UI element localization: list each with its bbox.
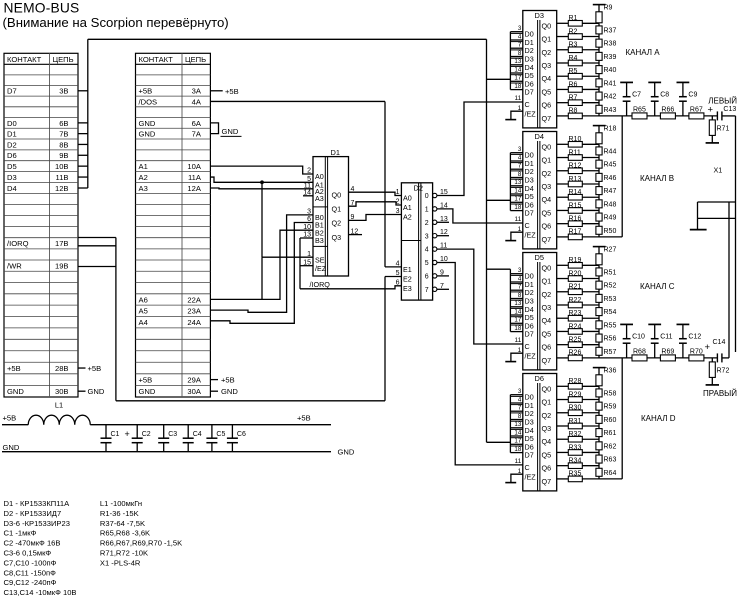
svg-text:1: 1 — [425, 207, 429, 214]
svg-text:C5: C5 — [216, 431, 225, 438]
svg-text:3: 3 — [425, 233, 429, 240]
svg-text:7: 7 — [518, 163, 522, 170]
svg-text:GND: GND — [7, 387, 24, 396]
svg-text:1: 1 — [518, 226, 522, 233]
svg-text:X1 -PLS-4R: X1 -PLS-4R — [100, 558, 141, 567]
svg-text:/EZ: /EZ — [525, 472, 537, 481]
svg-text:Q6: Q6 — [542, 101, 552, 110]
svg-text:18: 18 — [514, 204, 521, 211]
svg-text:12A: 12A — [187, 184, 201, 193]
svg-text:R54: R54 — [604, 309, 617, 316]
svg-text:3: 3 — [396, 208, 400, 215]
svg-text:Q2: Q2 — [542, 290, 552, 299]
svg-text:4: 4 — [518, 396, 522, 403]
svg-text:R1-36 -15K: R1-36 -15K — [100, 509, 139, 518]
svg-text:15: 15 — [303, 259, 311, 266]
svg-text:1: 1 — [307, 251, 311, 258]
svg-text:R20: R20 — [569, 270, 582, 277]
svg-text:C14: C14 — [713, 339, 726, 346]
svg-text:+: + — [708, 105, 714, 116]
svg-text:R26: R26 — [569, 350, 582, 357]
svg-text:E1: E1 — [403, 265, 412, 274]
svg-text:7: 7 — [425, 287, 429, 294]
svg-text:C: C — [525, 100, 530, 109]
svg-text:D3-6 -КР1533ИР23: D3-6 -КР1533ИР23 — [4, 519, 70, 528]
svg-text:ЛЕВЫЙ: ЛЕВЫЙ — [708, 96, 737, 105]
svg-text:R32: R32 — [569, 431, 582, 438]
svg-text:14: 14 — [514, 429, 521, 436]
svg-text:Q3: Q3 — [542, 424, 552, 433]
svg-text:КАНАЛ С: КАНАЛ С — [640, 282, 675, 291]
svg-text:NEMO-BUS: NEMO-BUS — [4, 1, 80, 16]
svg-text:8: 8 — [518, 171, 522, 178]
svg-text:Q4: Q4 — [542, 316, 552, 325]
svg-text:28B: 28B — [55, 364, 69, 373]
svg-text:Q1: Q1 — [332, 204, 342, 213]
svg-text:R47: R47 — [604, 188, 617, 195]
svg-text:D5: D5 — [7, 162, 17, 171]
svg-text:19B: 19B — [55, 262, 69, 271]
svg-text:C13,C14 -10мкФ 10В: C13,C14 -10мкФ 10В — [4, 588, 77, 597]
svg-text:ЦЕПЬ: ЦЕПЬ — [185, 55, 206, 64]
svg-text:C9: C9 — [688, 92, 697, 99]
svg-text:8: 8 — [518, 413, 522, 420]
svg-text:R59: R59 — [604, 404, 617, 411]
svg-text:4: 4 — [351, 186, 355, 193]
svg-text:17B: 17B — [55, 239, 69, 248]
svg-text:КАНАЛ А: КАНАЛ А — [626, 48, 661, 57]
svg-text:8: 8 — [518, 292, 522, 299]
svg-text:Q5: Q5 — [542, 87, 552, 96]
svg-text:24A: 24A — [187, 318, 201, 327]
svg-text:R66,R67,R69,R70 -1,5K: R66,R67,R69,R70 -1,5K — [100, 539, 182, 548]
svg-text:A3: A3 — [315, 194, 324, 203]
svg-text:R69: R69 — [661, 348, 674, 355]
svg-text:R53: R53 — [604, 296, 617, 303]
svg-text:Q0: Q0 — [542, 384, 552, 393]
svg-text:4: 4 — [396, 261, 400, 268]
svg-text:/DOS: /DOS — [139, 97, 158, 106]
svg-text:R58: R58 — [604, 391, 617, 398]
svg-text:X1: X1 — [714, 166, 723, 175]
svg-text:11A: 11A — [188, 173, 202, 182]
svg-text:+5B: +5B — [7, 364, 21, 373]
svg-text:D0: D0 — [7, 119, 17, 128]
svg-text:/EZ: /EZ — [525, 230, 537, 239]
svg-text:18: 18 — [514, 83, 521, 90]
svg-text:R40: R40 — [604, 67, 617, 74]
svg-text:R44: R44 — [604, 149, 617, 156]
svg-text:2: 2 — [425, 220, 429, 227]
svg-text:13: 13 — [440, 216, 448, 223]
svg-text:R37: R37 — [604, 28, 617, 35]
svg-text:22A: 22A — [187, 295, 201, 304]
svg-text:10A: 10A — [187, 162, 201, 171]
svg-text:Q7: Q7 — [542, 477, 552, 486]
svg-text:D7: D7 — [525, 209, 534, 218]
svg-text:C1 -1мкФ: C1 -1мкФ — [4, 529, 37, 538]
svg-text:C2 -470мкФ 16В: C2 -470мкФ 16В — [4, 539, 61, 548]
svg-text:D7: D7 — [7, 87, 17, 96]
svg-text:18: 18 — [514, 325, 521, 332]
svg-text:Q2: Q2 — [542, 169, 552, 178]
svg-text:R10: R10 — [569, 136, 582, 143]
svg-text:+5B: +5B — [3, 413, 17, 422]
svg-text:C3: C3 — [168, 431, 177, 438]
svg-text:Q0: Q0 — [542, 142, 552, 151]
svg-text:+5B: +5B — [225, 87, 239, 96]
svg-text:/EZ: /EZ — [525, 109, 537, 118]
svg-text:1: 1 — [518, 105, 522, 112]
svg-text:C7: C7 — [632, 92, 641, 99]
svg-text:11: 11 — [440, 243, 447, 250]
svg-text:18: 18 — [514, 446, 521, 453]
svg-text:11: 11 — [514, 216, 521, 223]
svg-text:Q1: Q1 — [542, 35, 552, 44]
svg-text:R8: R8 — [569, 108, 578, 115]
svg-text:R71: R71 — [717, 125, 730, 132]
svg-text:17: 17 — [514, 317, 521, 324]
svg-text:30B: 30B — [55, 387, 69, 396]
svg-text:R23: R23 — [569, 310, 582, 317]
svg-text:GND: GND — [88, 387, 105, 396]
svg-text:C13: C13 — [723, 106, 736, 113]
svg-text:КАНАЛ В: КАНАЛ В — [640, 174, 674, 183]
svg-text:D2 - КР1533ИД7: D2 - КР1533ИД7 — [4, 509, 62, 518]
svg-text:6B: 6B — [59, 119, 68, 128]
svg-text:C1: C1 — [111, 431, 120, 438]
svg-text:E3: E3 — [403, 284, 412, 293]
svg-text:R57: R57 — [604, 349, 617, 356]
svg-text:R50: R50 — [604, 228, 617, 235]
svg-text:4: 4 — [425, 247, 429, 254]
svg-text:13: 13 — [303, 232, 311, 239]
svg-text:11: 11 — [304, 183, 311, 190]
svg-text:D2: D2 — [7, 140, 17, 149]
svg-text:R43: R43 — [604, 107, 617, 114]
svg-text:R25: R25 — [569, 336, 582, 343]
svg-text:D3: D3 — [7, 173, 17, 182]
svg-text:3: 3 — [518, 25, 522, 32]
svg-text:А5: А5 — [139, 307, 148, 316]
svg-text:6: 6 — [307, 216, 311, 223]
svg-text:7: 7 — [351, 200, 355, 207]
svg-text:6A: 6A — [192, 119, 202, 128]
svg-text:+5B: +5B — [139, 87, 153, 96]
svg-text:6: 6 — [396, 280, 400, 287]
svg-text:C10: C10 — [632, 334, 645, 341]
svg-text:9B: 9B — [59, 151, 68, 160]
svg-text:R19: R19 — [569, 257, 582, 264]
svg-text:+: + — [125, 429, 130, 439]
svg-text:R72: R72 — [717, 367, 730, 374]
svg-text:4: 4 — [518, 275, 522, 282]
svg-text:5: 5 — [396, 270, 400, 277]
svg-text:E2: E2 — [403, 275, 412, 284]
svg-text:R65: R65 — [633, 106, 646, 113]
svg-text:R15: R15 — [569, 202, 582, 209]
svg-text:R18: R18 — [604, 125, 617, 132]
svg-text:R41: R41 — [604, 80, 617, 87]
svg-text:Q3: Q3 — [542, 182, 552, 191]
svg-text:R67: R67 — [690, 106, 703, 113]
svg-text:ПРАВЫЙ: ПРАВЫЙ — [703, 389, 737, 398]
svg-text:12B: 12B — [55, 184, 69, 193]
svg-text:10B: 10B — [55, 162, 69, 171]
svg-text:C6: C6 — [237, 431, 246, 438]
svg-text:D7: D7 — [525, 88, 534, 97]
svg-text:Q0: Q0 — [542, 263, 552, 272]
svg-text:4A: 4A — [192, 97, 202, 106]
svg-text:R21: R21 — [569, 284, 582, 291]
svg-text:A2: A2 — [139, 173, 148, 182]
svg-text:GND: GND — [338, 448, 355, 457]
svg-text:R64: R64 — [604, 470, 617, 477]
svg-text:9: 9 — [440, 269, 444, 276]
svg-text:Q2: Q2 — [542, 48, 552, 57]
svg-text:R42: R42 — [604, 94, 617, 101]
svg-text:R70: R70 — [690, 348, 703, 355]
svg-text:Q5: Q5 — [542, 329, 552, 338]
svg-text:R60: R60 — [604, 417, 617, 424]
svg-text:R13: R13 — [569, 176, 582, 183]
svg-text:D1: D1 — [7, 130, 17, 139]
svg-text:GND: GND — [3, 443, 20, 452]
svg-text:8B: 8B — [59, 140, 68, 149]
svg-text:R68: R68 — [633, 348, 646, 355]
svg-text:R6: R6 — [569, 81, 578, 88]
svg-text:11: 11 — [514, 458, 521, 465]
svg-text:R24: R24 — [569, 323, 582, 330]
svg-text:4: 4 — [518, 33, 522, 40]
svg-text:C: C — [525, 463, 530, 472]
svg-text:11B: 11B — [56, 173, 69, 182]
svg-text:R9: R9 — [604, 4, 613, 11]
svg-text:29A: 29A — [187, 375, 201, 384]
svg-text:D4: D4 — [535, 132, 544, 141]
svg-text:L1 -100мкГн: L1 -100мкГн — [100, 499, 142, 508]
svg-text:30A: 30A — [187, 387, 201, 396]
svg-text:C4: C4 — [193, 431, 202, 438]
svg-text:7: 7 — [518, 42, 522, 49]
svg-text:Q2: Q2 — [332, 219, 342, 228]
svg-text:0: 0 — [425, 193, 429, 200]
svg-text:D2: D2 — [414, 184, 423, 193]
svg-text:17: 17 — [514, 438, 521, 445]
svg-text:2: 2 — [307, 168, 311, 175]
svg-text:B3: B3 — [315, 236, 324, 245]
svg-text:7: 7 — [440, 283, 444, 290]
svg-text:R66: R66 — [661, 106, 674, 113]
svg-text:14: 14 — [514, 308, 521, 315]
svg-text:Q6: Q6 — [542, 222, 552, 231]
svg-text:R55: R55 — [604, 322, 617, 329]
svg-text:R63: R63 — [604, 457, 617, 464]
svg-text:3: 3 — [518, 146, 522, 153]
svg-text:Q4: Q4 — [542, 195, 552, 204]
svg-text:R4: R4 — [569, 55, 578, 62]
svg-text:D4: D4 — [7, 184, 17, 193]
svg-text:5: 5 — [425, 260, 429, 267]
svg-text:GND: GND — [139, 119, 156, 128]
svg-text:+5B: +5B — [297, 413, 311, 422]
svg-text:C11: C11 — [660, 334, 672, 341]
svg-text:D6: D6 — [7, 151, 17, 160]
svg-text:R33: R33 — [569, 444, 582, 451]
svg-text:13: 13 — [514, 179, 521, 186]
svg-text:7A: 7A — [192, 130, 202, 139]
svg-text:A2: A2 — [403, 213, 412, 222]
svg-text:14: 14 — [514, 66, 521, 73]
svg-text:A1: A1 — [139, 162, 148, 171]
svg-text:Q0: Q0 — [332, 190, 342, 199]
svg-text:8: 8 — [518, 50, 522, 57]
svg-text:C: C — [525, 342, 530, 351]
svg-text:R39: R39 — [604, 54, 617, 61]
svg-text:12: 12 — [351, 228, 359, 235]
svg-text:14: 14 — [514, 187, 521, 194]
svg-text:R12: R12 — [569, 163, 582, 170]
svg-text:R45: R45 — [604, 162, 617, 169]
svg-text:3A: 3A — [192, 87, 202, 96]
svg-text:C9,C12 -240пФ: C9,C12 -240пФ — [4, 578, 57, 587]
svg-text:Q7: Q7 — [542, 114, 552, 123]
svg-text:D6: D6 — [535, 374, 544, 383]
svg-text:R61: R61 — [604, 430, 617, 437]
svg-text:9: 9 — [351, 214, 355, 221]
svg-text:13: 13 — [514, 300, 521, 307]
svg-text:R1: R1 — [569, 15, 578, 22]
svg-text:Q0: Q0 — [542, 21, 552, 30]
svg-text:+5B: +5B — [221, 376, 235, 385]
svg-text:Q3: Q3 — [542, 303, 552, 312]
svg-text:Q2: Q2 — [542, 411, 552, 420]
svg-text:КОНТАКТ: КОНТАКТ — [7, 55, 42, 64]
svg-text:17: 17 — [514, 196, 521, 203]
svg-text:GND: GND — [139, 387, 156, 396]
svg-text:D3: D3 — [535, 11, 544, 20]
svg-text:1: 1 — [396, 189, 400, 196]
svg-text:4: 4 — [518, 154, 522, 161]
svg-text:Q3: Q3 — [332, 233, 342, 242]
svg-text:Q4: Q4 — [542, 437, 552, 446]
svg-text:3B: 3B — [59, 87, 68, 96]
svg-text:R35: R35 — [569, 471, 582, 478]
svg-text:2: 2 — [396, 199, 400, 206]
svg-text:7B: 7B — [59, 130, 68, 139]
svg-text:D5: D5 — [535, 253, 544, 262]
svg-text:R48: R48 — [604, 201, 617, 208]
svg-text:Q6: Q6 — [542, 343, 552, 352]
svg-text:3: 3 — [518, 388, 522, 395]
svg-text:C8: C8 — [660, 92, 669, 99]
svg-text:11: 11 — [514, 95, 521, 102]
svg-text:R56: R56 — [604, 336, 617, 343]
svg-text:A1: A1 — [403, 203, 412, 212]
svg-text:КАНАЛ D: КАНАЛ D — [641, 414, 676, 423]
svg-text:C2: C2 — [142, 431, 151, 438]
svg-text:Q5: Q5 — [542, 208, 552, 217]
svg-text:КОНТАКТ: КОНТАКТ — [139, 55, 174, 64]
svg-text:Q3: Q3 — [542, 61, 552, 70]
svg-text:6: 6 — [425, 274, 429, 281]
svg-text:R17: R17 — [569, 229, 582, 236]
svg-text:R49: R49 — [604, 215, 617, 222]
svg-text:D7: D7 — [525, 330, 534, 339]
svg-text:GND: GND — [222, 127, 239, 136]
svg-text:C8,C11 -150пФ: C8,C11 -150пФ — [4, 568, 57, 577]
svg-text:C12: C12 — [688, 334, 701, 341]
svg-text:R7: R7 — [569, 94, 578, 101]
svg-text:R14: R14 — [569, 189, 582, 196]
svg-text:R34: R34 — [569, 457, 582, 464]
svg-text:R52: R52 — [604, 283, 617, 290]
svg-text:Q1: Q1 — [542, 398, 552, 407]
svg-text:/IORQ: /IORQ — [7, 239, 29, 248]
svg-text:Q5: Q5 — [542, 450, 552, 459]
svg-text:A3: A3 — [139, 184, 148, 193]
svg-text:R16: R16 — [569, 215, 582, 222]
svg-text:R71,R72 -10K: R71,R72 -10K — [100, 549, 148, 558]
svg-text:11: 11 — [514, 337, 521, 344]
svg-text:7: 7 — [518, 284, 522, 291]
svg-text:15: 15 — [440, 189, 448, 196]
svg-text:ЦЕПЬ: ЦЕПЬ — [53, 55, 74, 64]
svg-text:/IORQ: /IORQ — [310, 280, 331, 289]
svg-text:/EZ: /EZ — [525, 351, 537, 360]
svg-text:23A: 23A — [187, 307, 201, 316]
svg-text:R46: R46 — [604, 175, 617, 182]
svg-text:Q7: Q7 — [542, 356, 552, 365]
svg-text:R37-64 -7,5K: R37-64 -7,5K — [100, 519, 145, 528]
svg-text:A0: A0 — [403, 194, 412, 203]
svg-text:10: 10 — [440, 256, 448, 263]
svg-text:R30: R30 — [569, 405, 582, 412]
svg-text:R5: R5 — [569, 68, 578, 75]
svg-text:А6: А6 — [139, 295, 148, 304]
svg-text:А4: А4 — [139, 318, 148, 327]
svg-text:1: 1 — [518, 347, 522, 354]
svg-text:17: 17 — [514, 75, 521, 82]
svg-text:+: + — [705, 342, 711, 353]
svg-text:C7,C10 -100пФ: C7,C10 -100пФ — [4, 558, 57, 567]
svg-text:+5B: +5B — [139, 375, 153, 384]
svg-text:GND: GND — [221, 387, 238, 396]
svg-text:3: 3 — [307, 209, 311, 216]
svg-text:R3: R3 — [569, 42, 578, 49]
svg-text:Q1: Q1 — [542, 277, 552, 286]
svg-text:R38: R38 — [604, 41, 617, 48]
svg-text:Q4: Q4 — [542, 74, 552, 83]
svg-text:L1: L1 — [55, 401, 63, 410]
svg-text:/EZ: /EZ — [315, 264, 327, 273]
svg-text:Q1: Q1 — [542, 156, 552, 165]
svg-text:R65,R68 -3,6K: R65,R68 -3,6K — [100, 529, 150, 538]
svg-text:D1: D1 — [331, 148, 340, 157]
svg-text:+5B: +5B — [88, 364, 102, 373]
svg-text:D7: D7 — [525, 451, 534, 460]
svg-text:R62: R62 — [604, 443, 617, 450]
svg-text:14: 14 — [440, 202, 448, 209]
svg-text:C3-6 0,15мкФ: C3-6 0,15мкФ — [4, 549, 52, 558]
svg-text:R28: R28 — [569, 378, 582, 385]
svg-text:Q7: Q7 — [542, 235, 552, 244]
svg-text:13: 13 — [514, 58, 521, 65]
svg-text:R51: R51 — [604, 270, 617, 277]
svg-text:12: 12 — [440, 229, 448, 236]
svg-text:R29: R29 — [569, 391, 582, 398]
svg-text:/WR: /WR — [7, 262, 22, 271]
